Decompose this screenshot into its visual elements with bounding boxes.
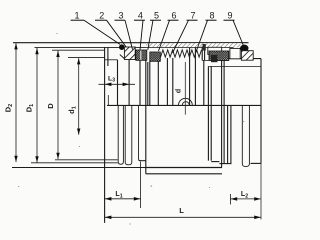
wire: right part top edge [228, 58, 261, 60]
callout 6 [159, 10, 179, 51]
seat hatched block right [241, 51, 253, 61]
callout 8 [196, 10, 217, 52]
wire: vertical x129.1 [128, 59, 130, 105]
wire: vertical x158.3 [157, 61, 159, 105]
node: tube A (gland bolt) [118, 105, 123, 164]
set screw dark block [211, 55, 217, 62]
svg-text:L3: L3 [108, 76, 115, 84]
scan speckles [18, 33, 244, 225]
dimension L1 [105, 198, 141, 200]
seat gland hatched block [124, 47, 135, 60]
svg-text:7: 7 [190, 10, 195, 20]
white block right [230, 48, 240, 58]
svg-text:1: 1 [74, 10, 79, 20]
callout 5 [148, 10, 161, 49]
seal ring crosshatched block B [150, 52, 161, 61]
node: gland left edge / extension line [104, 47, 106, 223]
wire: vertical x203.8 below retainer [203, 60, 205, 105]
node: tube B [125, 105, 132, 164]
wire: D top extension [52, 49, 105, 51]
spring [161, 50, 202, 57]
svg-text:6: 6 [171, 10, 176, 20]
wire: right part second edge [208, 65, 261, 67]
callout 2 [95, 10, 126, 46]
wire: vertical x172.8 [172, 58, 174, 105]
node: housing right wall inner [207, 66, 209, 160]
node: spring retainer plate [201, 47, 203, 61]
svg-text:L: L [179, 206, 184, 215]
node: housing left edge [145, 58, 147, 174]
wire: shaft sleeve top edge [13, 42, 249, 44]
wire: right extension line [260, 59, 262, 220]
wire: step edge left of housing [139, 160, 146, 162]
wire: gland corner diagonal [120, 55, 124, 59]
wire: vertical x230.9 [230, 105, 232, 163]
dimension D2 [14, 43, 17, 162]
dimension D [56, 51, 59, 159]
callout 3 [115, 10, 133, 49]
svg-text:3: 3 [118, 10, 123, 20]
wire: vertical x167.4 [166, 58, 168, 105]
wire: housing bottom upper edge [146, 167, 222, 169]
wire: vertical x149.8 [149, 61, 151, 105]
dimension d1 [77, 58, 80, 135]
wire: mid horizontal bore line [107, 104, 262, 106]
dimension L2 [230, 198, 261, 200]
svg-text:8: 8 [209, 10, 214, 20]
wire: vertical x227.6 [227, 105, 229, 163]
wire: D2 bottom extension / gland bottom edge [12, 167, 146, 169]
wire: D1 bottom extension [31, 162, 118, 164]
set screw collar crosshatched [209, 51, 229, 60]
L2 left extension tick [229, 194, 231, 205]
svg-text:D: D [46, 103, 55, 109]
wire: vertical x221.6 [221, 54, 223, 167]
wire: vertical x117.5 [117, 60, 119, 106]
wire: vertical x140 [139, 60, 141, 105]
wire: right bottom edge to outer wall [251, 162, 262, 164]
node: sleeve hatched strip [146, 43, 241, 47]
dimension L [105, 216, 261, 218]
wire: d1 top extension [68, 57, 105, 59]
wire: housing bottom lower edge [146, 173, 222, 175]
L1 right extension tick [140, 162, 142, 209]
dimension D1 [35, 48, 38, 162]
svg-text:4: 4 [138, 10, 143, 20]
callout 1 [71, 10, 121, 44]
o-ring 1 (black dot left) [119, 44, 125, 50]
wire: D bottom extension [55, 159, 118, 161]
wire: vertical x195.4 [194, 48, 196, 106]
wire: right collar bottom edge [202, 59, 229, 61]
wire: vertical x147.8 [147, 62, 149, 105]
node: right part outer edge [260, 59, 262, 164]
spring seat white block [208, 47, 222, 54]
wire: gland inner wall x107.9 [107, 47, 109, 66]
svg-text:2: 2 [99, 10, 104, 20]
wire: gland bottom edge [105, 59, 118, 61]
node: housing right wall outer [210, 66, 212, 160]
diameter d dimension arcs [179, 98, 193, 105]
seal ring crosshatched block A [136, 50, 147, 60]
svg-text:d: d [176, 89, 183, 93]
wire: sleeve bottom edge / D1 top extension [35, 46, 234, 48]
wire: vertical x224.1 [223, 60, 225, 163]
wire: right step edge [211, 161, 219, 163]
callout 7 [173, 10, 198, 53]
svg-text:5: 5 [154, 10, 159, 20]
svg-text:9: 9 [227, 10, 232, 20]
node: step tube C [139, 105, 146, 160]
dimension line for d [184, 62, 186, 115]
dimension L3 [99, 83, 136, 85]
node: tube D (seat sleeve right) [242, 105, 249, 166]
o-ring 9 (black ellipse right) [240, 45, 248, 52]
callout 4 [134, 10, 145, 49]
wire: right lower edge under tube [219, 163, 231, 165]
wire: vertical x189.6 [189, 48, 191, 106]
callout 9 [224, 10, 244, 45]
